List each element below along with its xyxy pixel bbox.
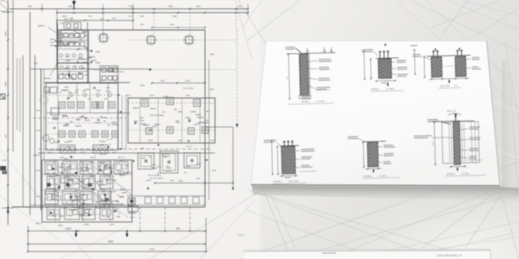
plan: bottom dim extensions — [27, 226, 29, 252]
plan: scattered leader arrows — [94, 87, 96, 89]
plan: mid-right equipment block — [128, 98, 215, 143]
sheet detail D3: section with two wall blocks — [412, 47, 481, 89]
svg-text:2456: 2456 — [6, 31, 8, 37]
plan: top dim extension verticals — [41, 4, 43, 12]
plan: cluster-to-wall dark boxes — [128, 198, 135, 205]
plan: left wall line stack — [16, 58, 18, 130]
svg-text:9873: 9873 — [62, 16, 68, 18]
detail sheet drop shadow (bottom) — [252, 186, 519, 203]
svg-text:456: 456 — [66, 99, 69, 101]
plan: bottom dimension line 1 — [28, 230, 205, 232]
plan: cluster circle row — [59, 54, 62, 57]
plan: lower-right dim bracket — [155, 182, 233, 184]
plan: cluster leader labels — [48, 27, 58, 34]
plan: cluster upper square rows — [58, 33, 62, 37]
svg-text:700.72: 700.72 — [186, 146, 193, 148]
plan: bottom dimension line 3 — [28, 251, 206, 253]
plan: building outline — [57, 29, 205, 31]
svg-text:DETAIL 5: DETAIL 5 — [364, 175, 373, 178]
plan: top-left module cluster — [58, 30, 89, 63]
svg-text:A05A.4: A05A.4 — [33, 154, 41, 157]
svg-text:DETAIL 4: DETAIL 4 — [274, 180, 283, 183]
plan: cluster smudges — [77, 31, 80, 34]
svg-text:A05A.1: A05A.1 — [38, 25, 46, 28]
svg-text:DATA SHEET/SPEC 1/8: DATA SHEET/SPEC 1/8 — [437, 255, 462, 258]
sheet detail: D6 top arc annotation — [447, 110, 462, 115]
bottom second sheet shadow — [243, 248, 491, 253]
svg-text:7464: 7464 — [178, 181, 184, 183]
plan: right margin dashed guides — [236, 30, 238, 129]
svg-text:11-4: 11-4 — [433, 142, 435, 146]
svg-text:DETAIL 6: DETAIL 6 — [447, 172, 456, 175]
svg-text:2456: 2456 — [66, 228, 72, 230]
plan: bottom dimension line 2 — [28, 243, 205, 245]
svg-text:A17.5: A17.5 — [78, 72, 83, 75]
svg-text:126.5: 126.5 — [185, 81, 191, 83]
svg-text:A05A: A05A — [36, 222, 42, 225]
svg-text:- 16″ PIER: - 16″ PIER — [461, 173, 470, 175]
plan: bottom boundary arrows — [75, 234, 78, 237]
svg-text:AT FOR DATA: AT FOR DATA — [150, 177, 163, 180]
svg-text:(NN 1-1/2): (NN 1-1/2) — [447, 111, 456, 113]
plan: lower-right equipment row — [138, 153, 154, 169]
background bright bottom-right corner — [340, 190, 519, 259]
plan: top dimension line 3 — [57, 19, 133, 21]
svg-text:SECTION: SECTION — [440, 86, 449, 88]
sheet bottom edge dark line — [251, 185, 500, 186]
plan: cluster right column symbol — [100, 35, 107, 42]
svg-text:M3U: M3U — [239, 233, 245, 237]
svg-text:A05A.3: A05A.3 — [89, 56, 96, 59]
plan: upper wall dim ticks — [152, 27, 205, 29]
plan: lower diagonal leaders — [100, 170, 132, 195]
svg-text:- 12″ WALL: - 12″ WALL — [378, 174, 387, 177]
svg-text:DETAIL 1: DETAIL 1 — [302, 100, 311, 103]
svg-text:7964: 7964 — [168, 6, 174, 8]
svg-text:8452: 8452 — [196, 6, 202, 8]
svg-text:DETAIL 2: DETAIL 2 — [371, 88, 380, 91]
plan: left edge small dark marks — [0, 94, 5, 99]
svg-text:8007: 8007 — [150, 249, 156, 251]
svg-text:3456: 3456 — [108, 242, 114, 244]
detail sheet (rotated white page) — [251, 41, 500, 186]
bottom sheet tiny header text — [322, 253, 336, 254]
plan: top dimension line 1 — [9, 8, 248, 10]
sheet detail D6: tall pier section — [413, 112, 486, 177]
background light wash top-left — [0, 0, 260, 259]
plan: mid-left equipment block — [46, 83, 118, 150]
svg-text:305 TD: 305 TD — [100, 154, 107, 156]
plan: lower cluster fine noise layer — [78, 208, 85, 214]
sheet detail D2: anchored wall block — [361, 43, 418, 92]
plan: extra leader arrowheads — [118, 94, 120, 96]
plan: mid-left block square row 1 — [59, 102, 65, 108]
svg-text:9-0: 9-0 — [287, 77, 289, 80]
svg-text:4N_6: 4N_6 — [130, 217, 136, 219]
sheet detail D5: narrow wall section — [348, 135, 400, 179]
plan: mid-left left margin symbols — [40, 96, 48, 104]
svg-text:456: 456 — [104, 99, 107, 101]
plan: upper-mid dim line — [152, 82, 205, 84]
plan: detail bubble top-left corner — [0, 1, 9, 12]
plan: column squares on grid row y=40 — [148, 37, 155, 44]
svg-text:723.5: 723.5 — [128, 16, 134, 18]
svg-text:A05A: A05A — [120, 188, 126, 191]
plan: extra tiny annotation smudges — [62, 89, 67, 92]
svg-text:2456: 2456 — [68, 6, 74, 8]
plan: mid-left block square row 2 — [59, 131, 65, 137]
svg-text:BLDG SCALE: BLDG SCALE — [148, 174, 162, 177]
plan: cluster lower block — [58, 63, 89, 83]
plan: left vertical dimension lines — [7, 0, 9, 225]
svg-text:12´9-1/8 A: 12´9-1/8 A — [183, 87, 194, 90]
svg-text:(MFOR DATA): (MFOR DATA) — [150, 114, 164, 117]
sheet detail D4: wide footing section — [264, 139, 317, 184]
plan: cluster vertical borders — [87, 22, 89, 83]
plan: mid-left block circle-dash service line — [48, 94, 118, 96]
svg-text:3456: 3456 — [6, 81, 8, 87]
svg-text:(A): (A) — [206, 110, 209, 113]
plan: mid connector corridor — [117, 95, 119, 150]
svg-text:4N12: 4N12 — [106, 91, 112, 93]
svg-text:- STILE WALL: - STILE WALL — [288, 180, 299, 183]
plan: mid horizontal separator — [38, 152, 215, 154]
svg-text:- 10″ WALL: - 10″ WALL — [385, 87, 395, 90]
svg-text:- 12″ WALL: - 12″ WALL — [316, 100, 326, 103]
plan: cluster right sub-block — [100, 66, 118, 83]
svg-text:1-0: 1-0 — [70, 19, 73, 21]
bottom second sheet (sliver) — [243, 250, 491, 259]
plan: mid-left block inner lines — [47, 112, 130, 114]
svg-text:305.1: 305.1 — [126, 95, 132, 97]
svg-text:A05A.4: A05A.4 — [44, 77, 52, 80]
svg-text:A37.05: A37.05 — [118, 156, 125, 159]
svg-text:1234: 1234 — [160, 81, 166, 83]
plan: lower-left dense cluster — [42, 160, 132, 222]
plan: bottom wall modules — [145, 197, 151, 203]
svg-text:7964: 7964 — [172, 16, 178, 18]
sheet detail D1: tall wall section — [285, 46, 336, 105]
architectural floor plan (left) — [0, 0, 249, 252]
background white crease lines right of sheet — [490, 100, 519, 158]
svg-text:456: 456 — [88, 99, 91, 101]
plan: desk ellipse clusters — [60, 145, 75, 153]
plan: top dimension line 2 — [57, 12, 248, 14]
plan: north arrow at top — [72, 1, 76, 5]
